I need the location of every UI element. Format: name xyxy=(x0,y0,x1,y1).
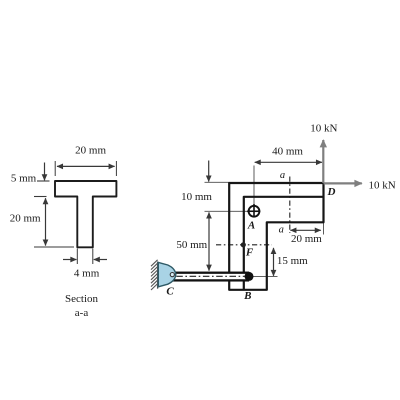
svg-text:40 mm: 40 mm xyxy=(272,145,303,157)
svg-text:4 mm: 4 mm xyxy=(74,267,100,279)
svg-text:B: B xyxy=(243,290,251,302)
svg-text:A: A xyxy=(247,220,255,232)
svg-text:Section: Section xyxy=(65,293,98,305)
svg-text:50 mm: 50 mm xyxy=(176,239,207,251)
svg-text:20 mm: 20 mm xyxy=(75,145,106,157)
svg-text:a: a xyxy=(280,170,285,181)
svg-text:10 kN: 10 kN xyxy=(310,123,337,135)
svg-text:15 mm: 15 mm xyxy=(277,255,308,267)
svg-text:20 mm: 20 mm xyxy=(10,213,41,225)
svg-text:20 mm: 20 mm xyxy=(291,233,322,245)
svg-text:a-a: a-a xyxy=(75,307,89,319)
svg-text:10 kN: 10 kN xyxy=(369,180,396,192)
svg-text:F: F xyxy=(245,247,254,259)
svg-text:D: D xyxy=(327,186,336,198)
svg-text:10 mm: 10 mm xyxy=(181,191,212,203)
svg-text:a: a xyxy=(279,225,284,236)
svg-text:5 mm: 5 mm xyxy=(11,173,37,185)
svg-text:C: C xyxy=(166,286,174,298)
